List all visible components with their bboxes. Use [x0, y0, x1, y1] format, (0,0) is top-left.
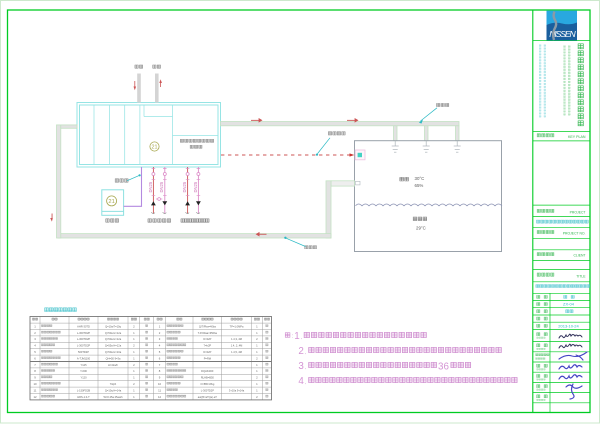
svg-text:A-TJM1100: A-TJM1100: [77, 356, 91, 360]
svg-text:3: 3: [298, 361, 304, 372]
svg-text:Q=10a/7=10q: Q=10a/7=10q: [105, 324, 121, 328]
pipe size labels DN25 rotated: [148, 181, 198, 192]
AHU number circle 21: [150, 142, 159, 151]
svg-text:10: 10: [33, 382, 37, 386]
svg-text:ZX-04: ZX-04: [563, 302, 575, 307]
fresh air label: [153, 65, 161, 68]
svg-text:12: 12: [158, 395, 162, 399]
control label leader: [316, 138, 330, 156]
pipe dest label: hot water tank: [148, 219, 171, 222]
supply duct leader: [419, 108, 437, 124]
pool water labels: [413, 217, 427, 231]
exhaust air label: [135, 65, 143, 68]
outdoor unit box: [102, 190, 124, 216]
svg-text:QH=50 9=3a: QH=50 9=3a: [106, 356, 121, 360]
svg-text:PROJECT: PROJECT: [570, 210, 586, 214]
row: drawing title label: [537, 273, 586, 278]
svg-text:65%: 65%: [415, 183, 424, 188]
pool water wavy line: [356, 204, 503, 206]
svg-text:DN25: DN25: [159, 181, 164, 192]
svg-text:11: 11: [158, 388, 161, 392]
row: client label: [537, 253, 585, 258]
svg-text:3+10a 9+14a: 3+10a 9+14a: [229, 388, 245, 392]
svg-text:H=42a/h: H=42a/h: [108, 363, 118, 367]
svg-text::: :: [292, 334, 293, 340]
svg-text:D=b2P: D=b2P: [203, 350, 211, 354]
supply duct drop 1: [394, 126, 398, 141]
svg-text:30°C: 30°C: [415, 176, 425, 181]
pool room outline: [355, 141, 502, 252]
AHU outlet stub right: [220, 121, 222, 123]
svg-text:1.4,5,.4M: 1.4,5,.4M: [231, 350, 242, 354]
svg-text:T-P/20aa=350ba: T-P/20aa=350ba: [198, 331, 218, 335]
svg-text:aaQ5=aTQa(-aT: aaQ5=aTQa(-aT: [198, 395, 218, 399]
return flow arrow bottom: [256, 232, 267, 237]
supply duct label: [437, 103, 449, 106]
control system label: [328, 132, 345, 135]
water pipes group: [151, 167, 201, 214]
drawing title value cyan: [536, 285, 590, 288]
svg-text:L-300TD2P: L-300TD2P: [77, 337, 91, 341]
title block left edge: [532, 10, 534, 413]
return duct from pool wall: [331, 181, 355, 186]
svg-text:DQHK2DF: DQHK2DF: [201, 369, 214, 373]
svg-text:2013-10-24: 2013-10-24: [558, 323, 579, 328]
svg-text:DN25: DN25: [148, 181, 153, 192]
title block horizontal rules: [533, 41, 590, 413]
svg-text:Q=50a H=12a: Q=50a H=12a: [105, 331, 122, 335]
svg-text:W=0.25a 25aa/h: W=0.25a 25aa/h: [103, 395, 123, 399]
supply air duct horizontal: [221, 122, 460, 126]
return duct left riser: [57, 125, 61, 238]
return flow arrow left riser: [50, 214, 53, 222]
supply flow arrow 2: [347, 118, 359, 123]
svg-text:12: 12: [33, 395, 37, 399]
table header + cells text: [32, 318, 269, 320]
svg-text:Y125: Y125: [80, 363, 87, 367]
svg-text:,: ,: [305, 381, 306, 386]
svg-text:Q=50a H=12a: Q=50a H=12a: [105, 337, 122, 341]
svg-text:21: 21: [108, 199, 114, 205]
return duct vertical drop: [326, 181, 331, 238]
svg-text:RLHB=B50: RLHB=B50: [201, 376, 215, 380]
company name vertical text: [578, 44, 583, 126]
row: plan number / KEY PLAN: [537, 134, 586, 139]
svg-text:L-300TD2P: L-300TD2P: [201, 388, 215, 392]
svg-text:,: ,: [301, 336, 302, 341]
svg-text:Q=55a H=12a: Q=55a H=12a: [105, 344, 122, 348]
svg-text:DN25: DN25: [182, 181, 187, 192]
attribute rows: sheet class/no/version/scale/date: [537, 295, 580, 328]
svg-text:7=b2P: 7=b2P: [204, 344, 212, 348]
return duct label leader: [284, 237, 305, 247]
control system dashed line: [221, 154, 350, 156]
svg-text:500TD2P: 500TD2P: [78, 350, 89, 354]
row: project name label: [537, 209, 585, 214]
outdoor unit number circle 21: [107, 196, 117, 206]
exhaust down arrow: [134, 81, 137, 90]
company logo NISSEN: [547, 11, 578, 41]
svg-text:21: 21: [152, 145, 158, 151]
return duct label: [305, 246, 317, 249]
svg-text:P=Rbf: P=Rbf: [204, 356, 212, 360]
svg-text:HRS-1.0-T: HRS-1.0-T: [77, 395, 90, 399]
outdoor unit label: [106, 219, 119, 222]
svg-text:1.4,.2,.4M: 1.4,.2,.4M: [231, 344, 243, 348]
svg-text:L-150FD2B: L-150FD2B: [77, 388, 91, 392]
svg-text:O=B50 Wkg: O=B50 Wkg: [200, 382, 215, 386]
svg-text:,: ,: [305, 351, 306, 356]
refrigerant pipe: [124, 167, 142, 206]
air temp labels: [400, 176, 424, 188]
svg-text:Y120: Y120: [80, 376, 87, 380]
project name value cyan: [537, 220, 589, 223]
svg-text:1.4,3,.4M: 1.4,3,.4M: [231, 337, 242, 341]
svg-text:L-300TD2P: L-300TD2P: [77, 331, 91, 335]
svg-text:4: 4: [298, 376, 304, 387]
svg-text:CLIENT: CLIENT: [573, 254, 585, 258]
supply duct drop 2: [425, 126, 429, 141]
ceiling diffusers: [392, 141, 461, 153]
svg-text:Q/T/Pba=40ba: Q/T/Pba=40ba: [199, 324, 217, 328]
svg-text:10: 10: [158, 382, 162, 386]
svg-text:1: 1: [294, 331, 299, 342]
row: project no label: [537, 230, 585, 235]
svg-text:L-300TD2P: L-300TD2P: [77, 344, 91, 348]
AHU internal section dividers: [94, 105, 218, 165]
fresh air up arrow: [159, 79, 162, 87]
svg-text:DN25: DN25: [193, 181, 198, 192]
svg-text:TP=1.0MPa: TP=1.0MPa: [230, 324, 244, 328]
equipment table grid: [30, 317, 272, 400]
svg-text:KEY PLAN: KEY PLAN: [568, 135, 586, 139]
svg-text:D=b2P: D=b2P: [203, 337, 211, 341]
supply flow arrow 1: [251, 118, 263, 123]
AHU indoor unit outer double box: [77, 103, 221, 168]
svg-text:36: 36: [438, 361, 449, 372]
AHU label text (unit name): [180, 139, 213, 148]
svg-text:Y-600: Y-600: [80, 369, 87, 373]
svg-text:2: 2: [298, 346, 303, 357]
svg-text:Q=10q H=14a: Q=10q H=14a: [105, 388, 122, 392]
signature rows labels: [536, 333, 549, 401]
svg-text:PROJECT NO.: PROJECT NO.: [563, 232, 586, 236]
svg-text:AHR-30TD: AHR-30TD: [77, 324, 90, 328]
pipe dest label: water treatment system: [181, 219, 209, 222]
exhaust air duct: [137, 74, 141, 103]
wall sensor box: [355, 150, 365, 160]
svg-text:,: ,: [305, 366, 306, 371]
svg-text:TITLE: TITLE: [576, 274, 586, 278]
notes block: [285, 331, 517, 387]
control line arrow into room: [350, 153, 355, 156]
wall return opening: [356, 181, 361, 185]
svg-text:Q=50a H=10a: Q=50a H=10a: [105, 350, 122, 354]
refrigerant label leader: [127, 174, 141, 181]
address green vertical text columns: [564, 46, 571, 116]
svg-text:11: 11: [34, 388, 37, 392]
equipment table title: [45, 308, 77, 312]
signatures handwriting: [559, 334, 587, 399]
return duct bottom run: [58, 234, 331, 238]
certificate cyan vertical text columns: [539, 45, 546, 118]
supply duct end drop 3: [456, 126, 460, 141]
fresh air duct: [155, 74, 159, 103]
svg-text:29°C: 29°C: [416, 226, 426, 231]
return duct stub into AHU: [61, 125, 77, 128]
svg-text:70q/h: 70q/h: [110, 382, 117, 386]
refrigerant pipe label: [115, 179, 128, 182]
